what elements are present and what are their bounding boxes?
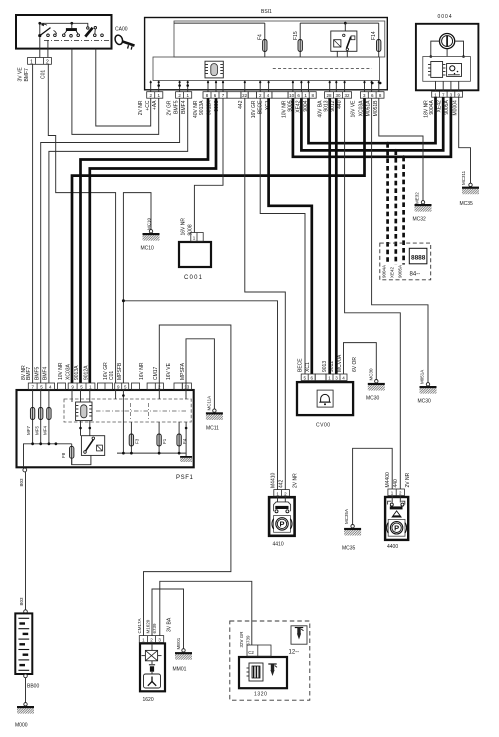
fuse F4 (PSF1) xyxy=(177,422,187,453)
BSI1 logic box xyxy=(153,57,380,81)
BSI1 pin 22 xyxy=(241,92,257,99)
svg-text:B03: B03 xyxy=(19,597,24,606)
wire B03 / supply chain xyxy=(23,468,27,472)
svg-text:CM17: CM17 xyxy=(153,366,159,380)
svg-text:MM01: MM01 xyxy=(173,667,187,673)
switch contact 3 (ignition) xyxy=(85,27,103,37)
wire 6739 xyxy=(160,581,252,645)
wire 440 xyxy=(345,98,401,489)
PSF1 earth bus xyxy=(117,452,186,454)
PSF1 supply bus xyxy=(24,444,72,468)
wire: contact to connector C01 pin 2 xyxy=(47,40,49,57)
CV00 connector pins 5,6,1,3,4 xyxy=(301,374,347,381)
svg-text:F3: F3 xyxy=(134,438,139,444)
instrument cluster 0004 xyxy=(416,24,479,91)
engine family box 12 (dashed) xyxy=(230,621,310,700)
fuse F8 xyxy=(61,444,74,465)
svg-text:440: 440 xyxy=(393,479,399,488)
wire MPSFB inside PSF1 xyxy=(122,390,124,454)
junction dots BSI1 bus xyxy=(150,81,152,83)
svg-text:C001: C001 xyxy=(184,275,203,281)
diagnostic socket C001 xyxy=(179,242,211,267)
wire MPSFB to MC10 xyxy=(123,193,151,383)
wire BMF7 xyxy=(32,64,34,383)
wire battery to M000 xyxy=(25,678,27,703)
PSF1 connector pins 7,5,4 xyxy=(28,383,65,390)
svg-text:M0004: M0004 xyxy=(452,100,458,116)
svg-text:9012: 9012 xyxy=(329,361,335,372)
svg-text:MC11A: MC11A xyxy=(207,396,212,411)
svg-text:MF5: MF5 xyxy=(34,426,39,435)
wire 9012 (thick) xyxy=(335,98,338,374)
1620 warning icon xyxy=(144,672,161,688)
svg-text:F15: F15 xyxy=(293,31,299,40)
1620 battery icon xyxy=(149,661,155,672)
svg-text:3V BA: 3V BA xyxy=(166,617,172,632)
handbrake switch 4410 xyxy=(269,497,295,536)
wire CM17 to CM17A xyxy=(144,325,231,636)
ground M000 xyxy=(17,703,34,714)
svg-text:BECE: BECE xyxy=(297,358,303,372)
svg-text:MC35: MC35 xyxy=(460,201,474,207)
wire 9013A (thick) xyxy=(81,98,209,383)
svg-text:BMF5: BMF5 xyxy=(34,366,40,380)
ground MC11 xyxy=(206,409,223,420)
svg-text:MC30: MC30 xyxy=(366,396,380,402)
junction M4410/MPSFB xyxy=(122,299,125,302)
wire: switch1 to connector C01 middle xyxy=(39,37,41,57)
svg-text:442: 442 xyxy=(238,100,244,109)
svg-text:C01: C01 xyxy=(41,70,47,79)
alternator unit 1620 xyxy=(140,643,165,691)
PSF1 connector pins 9,5 (16V GR) xyxy=(115,383,140,390)
svg-text:9013A: 9013A xyxy=(74,365,80,380)
PSF1 connector pin 2 (16V NR) xyxy=(147,383,182,390)
svg-text:+AA: +AA xyxy=(152,100,158,110)
svg-text:MPSFB: MPSFB xyxy=(117,362,123,380)
svg-text:BMF4: BMF4 xyxy=(43,366,49,380)
svg-text:4410: 4410 xyxy=(273,542,284,548)
0004 display icon xyxy=(447,64,462,77)
fuse MF4 xyxy=(43,390,52,444)
CA00 internal supply bus xyxy=(40,23,88,34)
svg-text:16V VE: 16V VE xyxy=(351,100,357,118)
wire M051A xyxy=(372,98,428,382)
0004 connector pins 1,7,3,9 xyxy=(432,91,463,97)
4400 connector pins 1,2 xyxy=(388,489,405,496)
svg-text:16V NR: 16V NR xyxy=(180,218,186,236)
switch contact 1 (start) xyxy=(38,23,56,37)
svg-text:1320: 1320 xyxy=(254,692,268,698)
4410 switch icon xyxy=(274,496,291,513)
svg-text:10: 10 xyxy=(289,93,295,98)
svg-text:XE42: XE42 xyxy=(390,266,395,278)
svg-text:M4410: M4410 xyxy=(270,472,276,488)
wire M1620 to MM01 xyxy=(152,589,184,649)
4410 parking brake icon xyxy=(272,516,292,533)
wire +CC xyxy=(96,49,151,126)
0004 IC icon xyxy=(428,62,445,78)
svg-text:9005A: 9005A xyxy=(397,265,402,278)
wire BECE xyxy=(260,98,305,374)
fuse F4 xyxy=(174,23,267,57)
svg-text:9004A: 9004A xyxy=(381,265,386,278)
wire XC03A (thick) xyxy=(72,98,365,383)
svg-text:M051B: M051B xyxy=(373,100,379,117)
BSI1 connector 10V NR pins 10,6,1,8 xyxy=(288,92,316,99)
0004 pin stubs xyxy=(435,81,437,91)
0004 inner module box xyxy=(423,57,471,82)
wire MPSFA to MC11 xyxy=(186,339,214,409)
svg-text:MC30: MC30 xyxy=(368,368,373,381)
svg-text:F4: F4 xyxy=(258,34,264,40)
svg-text:9013: 9013 xyxy=(322,361,328,372)
ground MC32 xyxy=(415,201,432,212)
svg-text:M1620: M1620 xyxy=(146,619,151,633)
0004 internal wiring xyxy=(431,41,440,56)
wire M0004 to MC35 xyxy=(459,97,471,183)
svg-text:BMF4: BMF4 xyxy=(181,100,187,114)
wire MCV0A to MC30 xyxy=(344,343,377,380)
wire M4400 to MC35 xyxy=(353,448,393,524)
svg-text:3V VE: 3V VE xyxy=(18,67,24,82)
svg-text:442: 442 xyxy=(278,479,284,488)
svg-text:MPSFA: MPSFA xyxy=(180,362,186,380)
svg-text:ME01: ME01 xyxy=(176,637,181,649)
svg-text:CM17A: CM17A xyxy=(137,618,142,633)
wire M4410 branch xyxy=(123,301,277,490)
wire 9013 (thick) xyxy=(328,98,331,374)
svg-text:9005A: 9005A xyxy=(444,100,450,115)
svg-text:MC35: MC35 xyxy=(342,546,356,552)
4400 warning triangle xyxy=(392,511,401,517)
svg-text:C01: C01 xyxy=(109,371,115,380)
BSI unit BSI1 xyxy=(145,18,388,90)
svg-text:B03: B03 xyxy=(19,478,24,487)
ground MC30 (M051A) xyxy=(420,383,437,394)
injection control unit 1320 xyxy=(239,657,287,688)
svg-text:84--: 84-- xyxy=(410,272,421,278)
dashed wire XE42 to display (thick) xyxy=(394,150,397,264)
svg-text:1620: 1620 xyxy=(143,697,154,703)
svg-text:MC10: MC10 xyxy=(141,246,155,252)
PSF1 top labels xyxy=(21,362,186,380)
svg-text:12--: 12-- xyxy=(289,650,300,656)
BSI1 fuse carrier box xyxy=(174,21,385,57)
svg-text:C2: C2 xyxy=(248,650,254,655)
svg-text:BB00: BB00 xyxy=(27,684,39,690)
junction on CA00 bus xyxy=(38,22,41,25)
svg-text:M4400: M4400 xyxy=(385,472,391,488)
wire 9008 xyxy=(194,98,223,232)
svg-text:16V GR: 16V GR xyxy=(251,100,257,118)
svg-text:ME32: ME32 xyxy=(414,192,419,204)
svg-text:6739: 6739 xyxy=(246,635,251,646)
svg-text:13: 13 xyxy=(184,384,190,389)
fuse F15 xyxy=(293,23,379,57)
svg-text:MF4: MF4 xyxy=(43,426,48,435)
BSI1 connector 2V NR pins 2,1 xyxy=(147,92,163,99)
BSI1 connector 40V BA pins 28,30,32 xyxy=(325,92,352,99)
dashed wire 9004A to display (thick) xyxy=(386,143,389,264)
svg-text:32: 32 xyxy=(344,93,350,98)
wire XC1 (thick) xyxy=(269,98,312,374)
1620 regulator icon xyxy=(142,643,162,660)
4400 parking brake icon xyxy=(387,519,407,536)
svg-text:2V GR: 2V GR xyxy=(167,100,173,115)
svg-text:M051A: M051A xyxy=(366,100,372,117)
dashed wire 9005A to display (thick) xyxy=(402,157,405,265)
svg-text:MC35A: MC35A xyxy=(344,509,349,524)
strip internal dash-dot xyxy=(96,410,186,412)
relay in BSI1 xyxy=(331,22,357,57)
fuse F1 xyxy=(157,422,167,453)
svg-text:BMF7: BMF7 xyxy=(24,68,30,82)
fuse F3 xyxy=(129,422,139,453)
PSF1 connector pin 13 (16V VE) xyxy=(182,383,191,390)
wire M051B to MC32 xyxy=(379,98,423,200)
ground MM01 xyxy=(175,649,192,660)
svg-text:F14: F14 xyxy=(371,31,377,40)
fuse MF7 xyxy=(26,390,35,444)
PSF1 pin stubs into strip xyxy=(71,390,73,403)
1620 connector pins 1,2,3 xyxy=(139,636,163,643)
wire 9004-9004A (thick) xyxy=(309,97,436,143)
ground MC10 xyxy=(143,230,160,241)
svg-text:10V NR: 10V NR xyxy=(58,362,64,380)
svg-text:16V GR: 16V GR xyxy=(103,362,109,380)
svg-text:CV00: CV00 xyxy=(316,423,331,429)
svg-text:MC10: MC10 xyxy=(147,217,152,230)
svg-text:MC311: MC311 xyxy=(461,170,466,185)
svg-text:16V NR: 16V NR xyxy=(139,362,145,380)
svg-text:M000: M000 xyxy=(15,723,28,729)
BSI1 bottom labels xyxy=(138,100,379,118)
BSI1 connector 40V NR pins 8,6,7 + blanks xyxy=(203,92,241,99)
BSI1 pin stubs xyxy=(151,81,379,92)
svg-text:XC1: XC1 xyxy=(305,362,311,372)
4400 switch icon xyxy=(388,496,405,510)
BSI1 connector 16V GR pins 2,4 xyxy=(256,92,288,99)
display icon 8888 xyxy=(409,248,427,263)
svg-text:XE42: XE42 xyxy=(436,100,442,112)
svg-text:16V VE: 16V VE xyxy=(166,362,172,380)
junction on CA00 bus xyxy=(70,22,73,25)
C001 connector pin 1 xyxy=(191,233,203,242)
svg-text:PSF1: PSF1 xyxy=(176,475,193,481)
1320 injector icon xyxy=(268,664,277,676)
BSI1 connector 2V GR pins 2,1 xyxy=(176,92,192,99)
1320 IC icon xyxy=(247,663,264,681)
svg-text:+CC: +CC xyxy=(145,100,151,111)
svg-text:MC30: MC30 xyxy=(418,399,432,405)
key symbol xyxy=(114,34,135,50)
svg-text:32V GR: 32V GR xyxy=(239,631,244,648)
engine fuse box PSF1 xyxy=(17,390,194,467)
fuse MF5 xyxy=(34,390,43,444)
svg-text:MF7: MF7 xyxy=(26,426,31,435)
PSF1 relay xyxy=(72,421,105,465)
svg-text:2V NR: 2V NR xyxy=(293,473,299,488)
wire C01 xyxy=(48,64,115,383)
PSF1 internal ground xyxy=(180,422,192,462)
CV00 bell icon xyxy=(317,390,333,407)
svg-text:F1: F1 xyxy=(162,438,167,444)
wire XE42 (thick) xyxy=(301,97,443,150)
BSI1 internal IC xyxy=(205,61,223,78)
svg-text:CA00: CA00 xyxy=(115,27,128,33)
ground MC30 xyxy=(368,380,385,391)
svg-text:2V NR: 2V NR xyxy=(405,472,411,487)
svg-text:28: 28 xyxy=(326,93,332,98)
svg-text:BMF7: BMF7 xyxy=(26,366,32,380)
handbrake warning switch 4400 xyxy=(385,497,408,540)
PSF1 control module strip xyxy=(64,399,191,422)
wire BMF5 xyxy=(41,98,180,383)
svg-text:6739: 6739 xyxy=(152,623,157,634)
svg-text:2V NR: 2V NR xyxy=(138,100,144,115)
svg-text:MCV0A: MCV0A xyxy=(337,354,343,372)
ignition switch assembly CA00 xyxy=(16,15,112,49)
svg-text:9012A: 9012A xyxy=(83,365,89,380)
svg-text:6V OR: 6V OR xyxy=(352,357,358,372)
0004 gauge stub xyxy=(446,49,448,57)
PSF1 IC icon xyxy=(76,402,92,421)
multifunction display family box 84 (dashed) xyxy=(380,243,431,280)
svg-text:8888: 8888 xyxy=(411,255,426,262)
ground MC35 (bottom) xyxy=(344,525,361,536)
svg-text:9004A: 9004A xyxy=(429,100,435,115)
ground MC35 xyxy=(462,183,479,194)
svg-text:F8: F8 xyxy=(61,452,66,458)
injector icon box (family 12) xyxy=(291,626,307,644)
4410 connector pins 1,2 xyxy=(274,490,290,497)
wire 442 xyxy=(245,98,285,489)
PSF1 connector pins 9,5,1 xyxy=(68,383,112,390)
fuse F14 xyxy=(371,23,381,57)
svg-text:9008: 9008 xyxy=(187,224,193,235)
switch contact 2 (accessories) xyxy=(63,23,80,37)
svg-text:22: 22 xyxy=(242,93,248,98)
wire BMF4 xyxy=(49,98,188,383)
svg-text:MC32: MC32 xyxy=(413,217,427,223)
svg-text:XC03A: XC03A xyxy=(66,363,72,380)
svg-text:9013A: 9013A xyxy=(199,100,205,115)
svg-text:BMF5: BMF5 xyxy=(174,100,180,114)
battery BB00 xyxy=(15,610,32,678)
svg-text:440: 440 xyxy=(337,100,343,109)
svg-text:30: 30 xyxy=(335,93,341,98)
BSI1 internal dashed link xyxy=(273,68,372,70)
svg-text:M051A: M051A xyxy=(420,370,425,384)
svg-text:4400: 4400 xyxy=(387,544,398,550)
1320 connector C2 xyxy=(247,645,271,656)
wire 9012A (thick) xyxy=(90,98,216,383)
wire +AA xyxy=(72,49,159,135)
horn CV00 xyxy=(297,382,353,415)
mechanical link (dash-dot) xyxy=(44,39,111,41)
wire 9005-9005A (thick) xyxy=(293,97,451,157)
connector C01 pins 1,2 xyxy=(28,58,52,66)
0004 gauge dial xyxy=(440,34,455,49)
svg-text:0004: 0004 xyxy=(438,14,453,20)
svg-text:MC11: MC11 xyxy=(206,426,219,432)
svg-text:BSI1: BSI1 xyxy=(261,9,272,15)
BSI1 connector 16V VE pins 3,6,8 xyxy=(360,92,384,99)
